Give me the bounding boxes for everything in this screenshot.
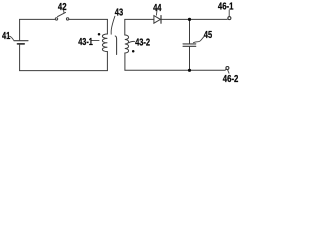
svg-text:41: 41 bbox=[2, 30, 10, 41]
leader 45 bbox=[193, 37, 204, 43]
svg-text:43: 43 bbox=[115, 6, 123, 17]
battery 41 short plate bbox=[18, 43, 25, 45]
terminal 46-2 circle bbox=[226, 67, 229, 70]
transformer core line bbox=[115, 36, 116, 55]
transformer secondary lead bottom bbox=[124, 53, 126, 70]
wire left vertical upper bbox=[19, 19, 21, 40]
leader 43 bbox=[111, 16, 115, 34]
capacitor 45 bottom plate bbox=[183, 45, 196, 47]
transformer primary lead top bbox=[106, 19, 108, 34]
transformer primary winding 43-1 bbox=[102, 34, 107, 52]
wire diode to terminal 46-1 bbox=[162, 18, 229, 21]
leader 44 bbox=[155, 10, 158, 15]
transformer secondary winding 43-2 bbox=[125, 35, 129, 53]
svg-text:43-2: 43-2 bbox=[135, 37, 150, 48]
wire secondary top to diode bbox=[125, 18, 154, 20]
switch 42 blade bbox=[58, 12, 66, 16]
wire bottom of right loop bbox=[125, 69, 226, 70]
leader 43-2 bbox=[129, 41, 135, 42]
leader 46-1 bbox=[228, 10, 230, 17]
svg-text:44: 44 bbox=[153, 2, 161, 13]
capacitor branch lower wire bbox=[189, 47, 191, 71]
transformer primary lead bottom bbox=[106, 52, 108, 71]
switch 42 contact circle right bbox=[66, 18, 68, 20]
wire switch to transformer primary bbox=[69, 18, 108, 20]
switch 42 contact circle left bbox=[55, 18, 57, 20]
svg-text:46-2: 46-2 bbox=[223, 73, 239, 84]
junction dot top bbox=[188, 18, 191, 21]
svg-text:42: 42 bbox=[58, 1, 67, 12]
capacitor branch upper wire bbox=[189, 19, 191, 43]
terminal 46-1 circle bbox=[228, 17, 231, 20]
transformer secondary lead top bbox=[124, 19, 126, 35]
svg-text:43-1: 43-1 bbox=[78, 36, 93, 47]
diode 44 triangle bbox=[154, 16, 161, 24]
leader 46-2 bbox=[228, 70, 229, 73]
leader 42 bbox=[63, 11, 65, 13]
leader 41 bbox=[10, 36, 14, 40]
svg-text:45: 45 bbox=[204, 29, 212, 40]
junction dot bottom bbox=[188, 69, 191, 72]
svg-text:46-1: 46-1 bbox=[218, 1, 234, 12]
polarity dot primary bbox=[98, 33, 101, 36]
capacitor 45 top plate bbox=[183, 43, 196, 45]
wire bottom of left loop bbox=[20, 70, 108, 72]
polarity dot secondary bbox=[132, 50, 135, 53]
wire top-left horizontal bbox=[20, 18, 56, 20]
battery 41 long plate bbox=[14, 40, 28, 42]
diode 44 cathode bar bbox=[160, 16, 162, 24]
leader 43-1 bbox=[92, 40, 100, 42]
wire left vertical lower bbox=[19, 45, 21, 71]
